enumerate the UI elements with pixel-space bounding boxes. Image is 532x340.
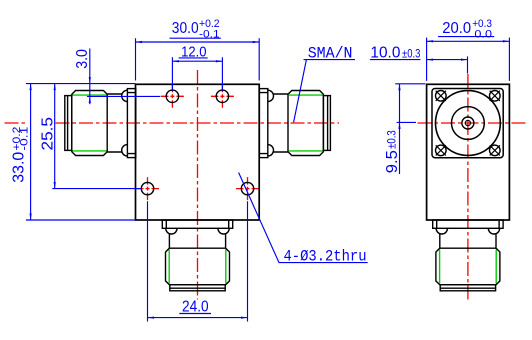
text 25.5 rotated: [40, 117, 57, 151]
horizontal centerline left view: [5, 122, 26, 124]
bottom connector flange plate: [162, 220, 232, 228]
dim 30.0 extension lines: [136, 38, 260, 80]
dim 20.0 extension lines: [427, 38, 510, 81]
horizontal centerline right view: [418, 122, 529, 124]
dim 24.0 line: [148, 317, 248, 319]
arrows 9.5: [398, 84, 400, 91]
right connector cap inner line: [327, 96, 329, 151]
crosshair hole top-right: [211, 85, 234, 108]
arrows 12.0: [172, 60, 179, 62]
bottom connector end cap: [170, 285, 225, 291]
svg-text:0.0: 0.0: [474, 29, 492, 41]
svg-text:25.5: 25.5: [40, 117, 57, 151]
green hex lines bottom connector: [169, 250, 226, 284]
arrows 10.0: [427, 58, 434, 60]
svg-text:±0.3: ±0.3: [386, 130, 398, 149]
bottom connector neck lines: [169, 234, 225, 249]
dim 9.5 line: [399, 84, 401, 174]
bottom connector plate inner lines: [166, 220, 228, 228]
svg-text:20.0: 20.0: [442, 20, 471, 37]
flange circle middle: [452, 107, 485, 140]
side bottom neck lines: [440, 234, 496, 249]
dim 24.0 underline: [179, 313, 211, 315]
svg-text:12.0: 12.0: [181, 44, 206, 61]
SMA/N underline: [304, 59, 356, 61]
left connector flange plate: [127, 89, 135, 158]
dim 12.0 line: [172, 60, 222, 62]
flange circle small: [462, 117, 474, 129]
side bottom end cap: [440, 285, 495, 291]
body outline: [136, 84, 260, 220]
side bottom flange ears: [436, 228, 500, 234]
svg-text:-0.1: -0.1: [19, 127, 31, 151]
dim 30.0 line: [136, 41, 260, 43]
bottom connector flange ears: [166, 228, 230, 234]
dim 12.0 underline: [179, 57, 208, 59]
svg-text:30.0: 30.0: [172, 20, 199, 37]
text 9.5±0.3 rotated: [384, 130, 401, 173]
flange circle outer: [436, 91, 501, 156]
screw bottom-right: [490, 145, 501, 156]
side bottom cap inner line: [440, 287, 495, 289]
right connector neck lines: [273, 94, 288, 152]
hole top-right: [216, 90, 228, 102]
svg-text:24.0: 24.0: [182, 298, 209, 315]
vertical centerline right view: [467, 74, 469, 301]
side bottom plate inner lines: [437, 220, 499, 228]
right connector SMA: [259, 89, 330, 158]
right connector plate inner lines: [259, 93, 267, 154]
dim 3.0 line: [89, 49, 91, 105]
flange circle pin: [465, 120, 470, 125]
left connector SMA: [65, 89, 136, 158]
right connector hex nut: [288, 91, 323, 156]
dim 10.0 underline: [370, 59, 421, 61]
dim 24.0 extension lines: [148, 201, 248, 321]
vertical centerline left view: [197, 70, 199, 300]
green hex lines right connector: [289, 95, 323, 151]
dim 10.0 line: [427, 59, 468, 61]
dim 10.0 right extension: [467, 56, 469, 73]
screw top-right: [490, 91, 501, 102]
svg-text:3.0: 3.0: [74, 49, 91, 69]
dim 20.0 line: [427, 40, 510, 42]
svg-text:9.5: 9.5: [384, 150, 401, 173]
side bottom hex nut: [436, 248, 500, 285]
right connector end cap: [323, 96, 330, 151]
dim 25.5 extension line: [52, 188, 142, 190]
right connector flange plate: [259, 89, 267, 158]
arrows 24.0: [148, 316, 155, 318]
dim 3.0 extension line: [87, 95, 160, 97]
svg-text:-0.1: -0.1: [199, 28, 220, 40]
side bottom flange plate: [433, 220, 503, 228]
dim 30.0 underline: [170, 37, 221, 39]
arrows 25.5: [54, 84, 56, 91]
screw top-left: [436, 91, 447, 102]
text 3.0 rotated: [74, 49, 91, 69]
bottom connector cap inner line: [170, 287, 225, 289]
bottom connector SMA: [162, 220, 232, 291]
arrows 3.0: [89, 77, 91, 84]
svg-text:33.0: 33.0: [10, 152, 27, 183]
text 33.0 rotated: [10, 127, 30, 183]
hole bottom-right: [241, 182, 253, 194]
left connector plate inner lines: [127, 93, 135, 154]
SMA/N leader: [294, 60, 307, 123]
dim 20.0 underline: [438, 36, 494, 38]
flange square: [432, 89, 503, 158]
svg-text:±0.3: ±0.3: [402, 48, 420, 60]
screw bottom-left: [436, 145, 447, 156]
left connector end cap: [65, 96, 72, 151]
arrows 20.0: [427, 40, 434, 42]
arrows 30.0: [136, 41, 143, 43]
left connector cap inner line: [67, 96, 69, 151]
arrows 33.0: [29, 84, 31, 91]
right connector flange ears: [268, 90, 274, 156]
green hex lines side-view bottom connector: [440, 250, 497, 284]
hole bottom-left: [141, 182, 153, 194]
crosshair hole top-left: [161, 85, 184, 108]
svg-text:SMA/N: SMA/N: [308, 44, 353, 62]
crosshair hole bottom-left: [136, 177, 159, 200]
dim 25.5 line: [54, 84, 56, 189]
bottom connector hex nut: [166, 248, 230, 285]
hole top-left: [166, 90, 178, 102]
dim 9.5 extension lines: [395, 84, 425, 123]
dim 33.0 line: [30, 84, 32, 220]
left connector neck lines: [107, 94, 122, 152]
dim 33.0 extension lines: [26, 84, 136, 220]
dim 12.0 extension lines: [172, 57, 222, 89]
leader 4-dia3.2: [239, 173, 368, 263]
svg-text:4-Ø3.2thru: 4-Ø3.2thru: [284, 248, 367, 266]
side-view bottom connector: [433, 220, 503, 291]
left connector hex nut: [72, 91, 107, 156]
side body outline: [427, 84, 510, 220]
svg-text:10.0: 10.0: [370, 44, 400, 61]
crosshair hole bottom-right: [236, 177, 259, 200]
left connector flange ears: [122, 90, 128, 156]
green hex lines left connector: [73, 95, 107, 151]
